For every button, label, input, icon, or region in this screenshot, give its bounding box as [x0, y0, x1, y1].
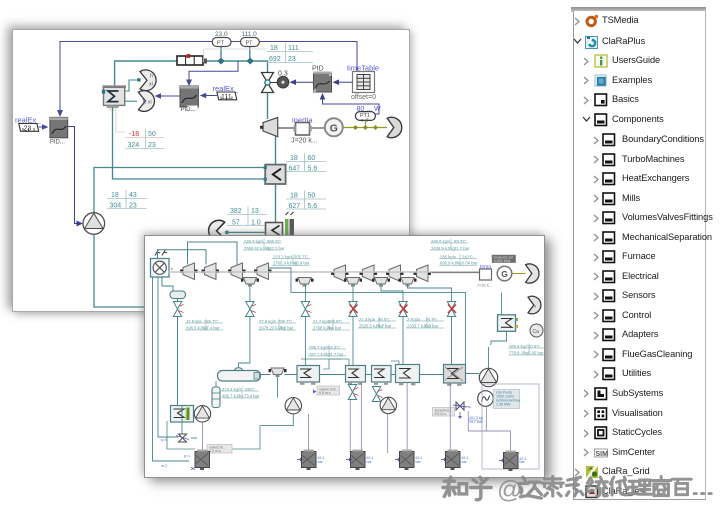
svg-text:Ca: Ca: [533, 329, 540, 335]
table W2c: [430, 239, 470, 252]
turbine LP3: [386, 265, 404, 282]
svg-text:50: 50: [308, 193, 316, 200]
table W2b: [272, 254, 310, 266]
sensor circle Ca: [530, 324, 543, 337]
wire valve2 down to deaerator: [239, 317, 250, 369]
wire teal valve to turbine: [267, 93, 269, 120]
svg-text:J=20 k...: J=20 k...: [291, 138, 318, 145]
turbine LP1: [331, 265, 349, 282]
svg-text:23: 23: [148, 142, 156, 149]
svg-text:18: 18: [270, 45, 278, 52]
svg-text:695.9 kJ/kg: 695.9 kJ/kg: [440, 261, 462, 266]
valve small VS1: [348, 385, 358, 400]
valve V26 X: [447, 302, 456, 317]
condensate block CB1: [195, 450, 210, 471]
wire deaerator col: [215, 381, 217, 387]
svg-text:bar: bar: [462, 460, 468, 464]
wire teal pump down and right: [94, 234, 147, 307]
extraction tee E1: [241, 278, 259, 287]
condensate block CB4: [400, 450, 415, 471]
table W2h: [358, 317, 396, 329]
flame arrows: [155, 250, 167, 256]
svg-text:PT: PT: [217, 41, 225, 47]
table W2e: [185, 319, 223, 331]
node diamond olive3: [373, 125, 378, 130]
svg-text:xi: xi: [149, 82, 153, 88]
wire P21 line: [193, 413, 196, 415]
svg-text:bar: bar: [367, 460, 373, 464]
table W2k: [308, 345, 346, 358]
table W2g: [312, 319, 350, 331]
timeTable block: [347, 64, 379, 102]
wire teal HX1 bottom to HX2 left lower: [113, 107, 266, 179]
svg-text:692: 692: [269, 56, 281, 63]
label box gray2: [317, 386, 340, 395]
valve V23: [301, 302, 311, 317]
wire valve4 down: [352, 317, 354, 366]
svg-text:0.2 m.s: 0.2 m.s: [209, 449, 221, 453]
wire crossover: [269, 268, 429, 293]
fwh FWH2: [297, 366, 320, 385]
svg-text:9.8 m.s: 9.8 m.s: [319, 391, 331, 395]
svg-text:18: 18: [111, 192, 119, 199]
wire pill1 stem: [220, 47, 222, 62]
arrows to blocks: [297, 458, 302, 461]
wire teal HX2 left upper to pump: [94, 168, 266, 214]
actuator knob: [277, 71, 289, 88]
spray valve bottom: [176, 434, 197, 442]
pump P1: [83, 213, 105, 235]
label box spray: [433, 408, 455, 417]
boundary frame: [482, 384, 539, 469]
power sensor pill PT1: [355, 106, 381, 128]
svg-text:18: 18: [290, 155, 298, 162]
inertia block 2: [477, 265, 492, 288]
tree panel: [571, 7, 706, 12]
wire tee4 to valve: [381, 284, 403, 302]
generator G2: [497, 266, 512, 281]
inertia block: [291, 116, 318, 145]
boiler furnace: [151, 259, 175, 278]
wire olive power: [343, 127, 387, 129]
node junction J1: [217, 58, 224, 65]
table T5 red: [116, 109, 164, 149]
svg-text:b: b: [171, 266, 174, 271]
wire navy to PID2 top: [189, 61, 238, 80]
wire teal pacman to HX3: [225, 231, 266, 233]
extraction tee E4: [372, 278, 390, 287]
node junction J2: [247, 58, 254, 65]
wire arrow into PID1: [57, 110, 63, 117]
svg-text:PID: PID: [312, 66, 324, 73]
turbine IP1: [228, 263, 246, 280]
wire valve5 down: [402, 317, 404, 365]
svg-text:bar: bar: [520, 460, 526, 464]
extraction tee E5: [399, 278, 417, 287]
valve V1: [262, 73, 278, 93]
boundary pacman B22: [528, 296, 541, 314]
svg-text:G: G: [501, 269, 508, 279]
fwh FWH6: [444, 365, 466, 386]
wire teal main bus: [115, 61, 268, 87]
wire teal HX2 down: [275, 185, 277, 224]
table T6: [227, 206, 267, 227]
shaft wire: [278, 127, 298, 129]
gauge bar with red tick: [177, 54, 207, 65]
window 1 : upper Modelica diagram: [12, 29, 410, 312]
svg-text:13: 13: [251, 208, 259, 215]
wires heaters to bottom: [349, 400, 351, 454]
blue labels by blocks: [184, 454, 527, 464]
boundary pacman B1: [387, 117, 402, 137]
sensor pill PT 111.0: [241, 31, 260, 47]
extraction tee E6: [269, 368, 287, 377]
svg-text:bar: bar: [318, 460, 324, 464]
fwh FWH5: [396, 365, 420, 386]
sensor T xi: [138, 91, 154, 112]
pump P22: [285, 398, 301, 414]
svg-text:SIM: SIM: [596, 450, 609, 457]
wire steam line 1: [158, 250, 207, 265]
table T4: [107, 190, 147, 210]
wire tee5 to valve: [408, 284, 452, 302]
PID controller U3: [312, 66, 332, 93]
pump P23: [380, 397, 396, 413]
wire PID2 to T sensor: [159, 95, 180, 97]
wire PID3 to knob: [294, 81, 313, 83]
heat exchanger HX2: [264, 165, 286, 184]
table W2l deaerator: [221, 387, 260, 399]
fwh FWH3: [346, 366, 366, 385]
svg-text:m-2: m-2: [161, 464, 167, 468]
boundary pacman B2: [209, 220, 225, 240]
svg-text:@: @: [497, 476, 522, 504]
header drum: [170, 291, 186, 299]
tiny purple marks bottom left: [161, 438, 167, 468]
wire power sensor to PID3 bottom: [323, 98, 380, 115]
svg-text:p=9: p=9: [161, 438, 167, 442]
svg-text:p=1: p=1: [184, 454, 190, 458]
left boiler downcomers: [153, 277, 190, 461]
wire PID1 out to pump: [68, 127, 78, 224]
svg-text:bar: bar: [416, 460, 422, 464]
wire shaft: [168, 271, 479, 273]
svg-text:111: 111: [221, 94, 232, 101]
wire to P24: [488, 347, 490, 369]
condensate block CB3: [351, 450, 366, 471]
watermark zhihu: [443, 477, 711, 500]
table W2i: [406, 317, 444, 329]
svg-text:45.9 bar: 45.9 bar: [294, 261, 310, 266]
generator G1: [325, 118, 343, 136]
table W2d: [439, 254, 478, 266]
wire tee1 to valve: [249, 284, 251, 302]
wire teal turbine down through HX2: [275, 137, 277, 165]
wire olive to boundary: [512, 273, 526, 275]
feedwater main line: [320, 374, 480, 375]
motor M: [478, 391, 494, 407]
pump P21: [194, 406, 210, 422]
label box bottom left: [207, 445, 232, 454]
wire teal hx elbow to h sensor: [125, 80, 138, 91]
storage column: [212, 387, 220, 408]
condensate block CB2: [302, 450, 317, 471]
svg-text:39.7 bar: 39.7 bar: [469, 420, 483, 424]
svg-text:60: 60: [308, 155, 316, 162]
turbine HP2: [202, 263, 220, 280]
svg-text:G: G: [330, 122, 338, 134]
svg-text:23: 23: [24, 125, 32, 132]
table T3: [286, 191, 326, 211]
control valve CV1: [453, 402, 471, 419]
node diamond olive1: [353, 125, 358, 130]
wire tee2 to valve: [304, 284, 306, 302]
valve V25 X: [399, 302, 408, 317]
wire condenser loop: [501, 293, 503, 315]
sensor h xi: [140, 70, 156, 91]
svg-text:43: 43: [129, 192, 137, 199]
heater interconnect upper: [323, 359, 349, 369]
table T1 rows 18/111 692/23: [204, 43, 314, 63]
fwh FWH4: [372, 366, 392, 385]
table W2f: [258, 319, 296, 331]
blue mini label: [468, 416, 483, 424]
svg-text:18: 18: [290, 193, 298, 200]
valve V21: [173, 302, 183, 317]
valve V22: [246, 302, 256, 317]
extraction tee E2: [296, 278, 314, 287]
svg-text:324: 324: [128, 142, 140, 149]
svg-text:0.04 bar: 0.04 bar: [462, 261, 478, 266]
wire tee E6: [261, 374, 298, 376]
turbine T1: [263, 118, 278, 137]
svg-text:1.38 MW: 1.38 MW: [496, 403, 511, 407]
svg-text:PID...: PID...: [181, 107, 196, 113]
deaerator vessel: [218, 368, 261, 381]
svg-text:S=850 MVA: S=850 MVA: [494, 259, 512, 263]
turbine LP4: [414, 265, 432, 282]
svg-text:-18: -18: [129, 131, 139, 138]
turbine LP2: [360, 265, 378, 282]
wire right loop long: [428, 293, 465, 369]
svg-text:9.8 m.s: 9.8 m.s: [435, 412, 447, 416]
valve V24 X: [349, 302, 358, 317]
sensor pill PT 23.0: [212, 31, 231, 47]
wire steam line 2: [188, 242, 238, 265]
window 2 : lower plant diagram: [144, 235, 545, 478]
turbine HP1: [180, 263, 198, 280]
wire valve6 down: [451, 317, 453, 365]
svg-text:111: 111: [288, 45, 299, 52]
realEx block 23: [15, 116, 49, 133]
condenser HX21: [498, 315, 519, 332]
wire valve1 down: [177, 317, 179, 407]
svg-text:T, xi: T, xi: [142, 100, 152, 106]
wire bottom long: [233, 426, 261, 449]
svg-text:h: h: [150, 74, 153, 80]
pump P24 main: [479, 368, 497, 386]
generator label box: [492, 255, 516, 263]
wire timeTable to PID3: [337, 81, 353, 83]
svg-text:382: 382: [230, 208, 242, 215]
turbine IP2: [254, 263, 272, 280]
node diamond olive2: [363, 125, 368, 130]
wire boiler to drum: [162, 277, 173, 291]
condensate block CB5: [446, 450, 461, 471]
svg-text:PID...: PID...: [50, 140, 65, 146]
valve small with figures: [285, 212, 294, 236]
table W2a: [243, 239, 285, 252]
wire setpoint navy top: [60, 42, 357, 112]
svg-text:23: 23: [288, 56, 296, 63]
svg-text:0.3: 0.3: [278, 71, 288, 78]
PID controller U1: [50, 117, 68, 145]
wire drum down: [177, 299, 179, 302]
wire valve3 down: [304, 317, 306, 366]
condensate block CB6: [504, 451, 519, 472]
wire pill2 stem: [249, 47, 251, 62]
valve small VS2: [372, 387, 382, 402]
heat exchanger HX1: [102, 85, 126, 110]
fwh FWH1: [171, 406, 194, 423]
svg-text:23.0: 23.0: [215, 31, 228, 38]
label box con pump: [494, 390, 520, 409]
svg-text:J=20 k...: J=20 k...: [477, 283, 492, 288]
table T2: [286, 153, 326, 173]
table W2j: [508, 344, 546, 356]
extraction tee E3: [344, 278, 362, 287]
svg-text:PT: PT: [246, 41, 254, 47]
boundary pacman B21: [526, 264, 539, 283]
PID controller U2: [180, 86, 198, 113]
svg-text:offset=0: offset=0: [351, 94, 376, 101]
wire tee3 to valve: [352, 284, 354, 302]
svg-text:50: 50: [148, 131, 156, 138]
realEx block 111: [200, 84, 239, 101]
heat exchanger HX3: [266, 223, 283, 238]
svg-text:111.0: 111.0: [242, 31, 258, 38]
